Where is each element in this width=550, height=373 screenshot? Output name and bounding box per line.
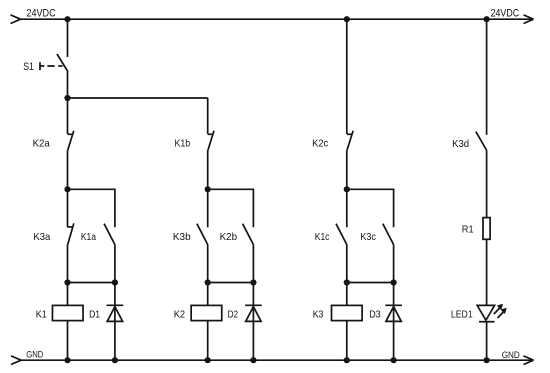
wire K3d to R1 [486, 150, 488, 217]
arrowhead top-right [524, 15, 534, 24]
svg-text:K3b: K3b [173, 232, 191, 243]
contact K2c [347, 131, 353, 150]
svg-text:S1: S1 [23, 61, 34, 73]
node GND branch3 diode [391, 357, 397, 363]
svg-text:K3d: K3d [452, 139, 469, 150]
wire K2b to node3 [252, 245, 254, 283]
node top rail / branch1 [64, 16, 70, 22]
wire node1 down to K2a [67, 98, 69, 134]
svg-text:GND: GND [26, 350, 44, 360]
svg-text:24VDC: 24VDC [27, 7, 56, 19]
LED LED1 [477, 305, 505, 322]
wire D3 branch [393, 283, 395, 361]
svg-text:R1: R1 [462, 224, 474, 235]
svg-text:K3c: K3c [360, 232, 376, 243]
node top rail / branch3 [344, 16, 350, 22]
node 2 junction branch2 [205, 186, 211, 192]
node 3 junction K3c branch [391, 279, 397, 285]
resistor R1 [483, 218, 490, 240]
svg-text:K1: K1 [36, 309, 47, 320]
wire K3c to node3 [393, 245, 395, 283]
node 3 junction branch2 [205, 279, 211, 285]
arrowhead top-left [11, 15, 21, 24]
relay coil K1 [52, 305, 83, 320]
contact K3c [383, 224, 394, 245]
wire node2 down to K3a [67, 189, 69, 227]
contact K1c [336, 224, 347, 245]
wire S1 to node1 [67, 72, 69, 99]
contact K3b [197, 224, 208, 245]
arrowhead bottom-left [11, 356, 21, 365]
svg-text:LED1: LED1 [451, 309, 473, 320]
node GND branch2 coil [205, 357, 211, 363]
wire K2c to node2 [346, 150, 348, 189]
diode D2 [245, 305, 262, 321]
wire R1 to LED1 [486, 239, 488, 305]
wire node2 down to K3b [207, 189, 209, 227]
arrowhead bottom-right [524, 356, 534, 365]
wire node2 down to K1c [346, 189, 348, 227]
svg-text:K1b: K1b [175, 139, 191, 150]
wire branch3 rail to K2c [346, 19, 348, 134]
contact K1a [104, 224, 115, 245]
svg-text:K2a: K2a [33, 139, 50, 150]
svg-text:K3a: K3a [33, 232, 50, 243]
wire K2a to node2 [67, 150, 69, 189]
wire node3 to coil K1 [67, 283, 69, 306]
svg-text:K2: K2 [174, 309, 186, 320]
relay coil K2 [191, 305, 222, 320]
node 1 junction [64, 95, 70, 101]
wire K1c to node3 [346, 245, 348, 283]
wire top 24VDC rail [21, 18, 534, 20]
wire node3 to coil K3 [346, 283, 348, 306]
wire D1 branch [114, 283, 116, 361]
wire bottom GND rail [21, 359, 534, 361]
wire K1a to node3 [114, 245, 116, 283]
relay coil K3 [332, 305, 363, 320]
contact K2a [68, 131, 74, 150]
node 3 junction K1a branch [112, 279, 118, 285]
svg-text:GND: GND [502, 350, 520, 360]
wire branch1 rail to S1 [67, 19, 69, 57]
switch S1 [40, 54, 68, 72]
svg-text:K3: K3 [313, 309, 324, 320]
node 3 junction K2b branch [250, 279, 256, 285]
wire branch2 down from node1 [207, 98, 209, 134]
diode D3 [385, 305, 402, 321]
node GND branch2 diode [250, 357, 256, 363]
svg-text:K1c: K1c [315, 232, 330, 243]
wire LED1 to GND rail [486, 322, 488, 361]
node 2 junction branch1 [64, 186, 70, 192]
contact K1b [208, 131, 214, 150]
wire K3b to node3 [207, 245, 209, 283]
svg-text:D1: D1 [89, 309, 100, 320]
node 2 junction branch3 [344, 186, 350, 192]
node 3 junction branch3 [344, 279, 350, 285]
node top rail / branch4 [484, 16, 490, 22]
wire node3 to coil K2 [207, 283, 209, 306]
wire node2 horizontal to K1a branch [68, 189, 115, 227]
wire coil K2 to GND rail [207, 321, 209, 361]
node GND branch1 coil [64, 357, 70, 363]
svg-text:K2b: K2b [220, 232, 238, 243]
wire node3 horizontal branch1 [68, 282, 115, 284]
wire node2 horizontal to K2b branch [208, 189, 254, 227]
contact K2b [243, 224, 254, 245]
wire node3 horizontal branch2 [208, 282, 254, 284]
wire coil K3 to GND rail [346, 321, 348, 361]
diode D1 [107, 305, 124, 321]
wire node1 horizontal to branch2 [68, 97, 208, 99]
contact K3d [476, 132, 487, 151]
wire coil K1 to GND rail [67, 321, 69, 361]
wire node3 horizontal branch3 [347, 282, 394, 284]
wire K1b to node2 [207, 150, 209, 189]
svg-text:K2c: K2c [312, 139, 328, 150]
node GND branch3 coil [344, 357, 350, 363]
node GND branch1 diode [112, 357, 118, 363]
wire D2 branch [252, 283, 254, 361]
svg-text:D2: D2 [228, 309, 239, 320]
wire branch4 rail to K3d [486, 19, 488, 135]
wire K3a to node3 [67, 245, 69, 283]
svg-text:K1a: K1a [81, 232, 96, 243]
svg-text:D3: D3 [369, 309, 381, 320]
node GND branch4 [484, 357, 490, 363]
contact K3a [68, 223, 74, 244]
svg-text:24VDC: 24VDC [491, 7, 519, 19]
node 3 junction branch1 [64, 279, 70, 285]
wire node2 horizontal to K3c branch [347, 189, 394, 227]
